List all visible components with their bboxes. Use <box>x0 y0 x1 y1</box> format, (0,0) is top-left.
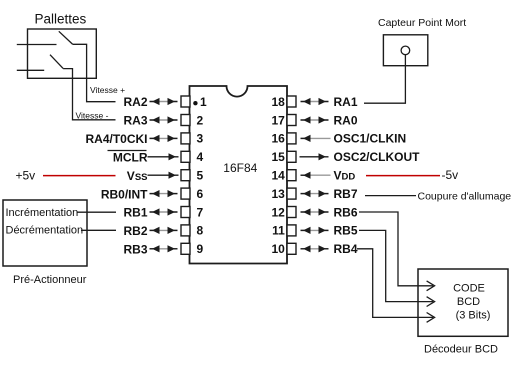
pin number 4 <box>197 150 204 164</box>
svg-text:11: 11 <box>272 224 285 238</box>
pin label RB4 (pin 10) <box>334 242 358 256</box>
wire VDD to -5v (red) <box>366 175 440 177</box>
net label Vitesse - <box>76 111 109 121</box>
pin number 15 <box>271 150 285 164</box>
switch box SW (Pallettes) <box>28 29 97 78</box>
decoder input arrow 1 <box>427 281 435 291</box>
svg-text:13: 13 <box>271 187 285 201</box>
pin box pin 5 (left) <box>181 170 190 181</box>
svg-text:3: 3 <box>197 132 204 146</box>
pin label Vss (pin 5) <box>127 169 148 183</box>
pin box pin 8 (left) <box>181 225 190 236</box>
pin box pin 18 (right) <box>287 96 296 107</box>
pin label OSC1/CLKIN (pin 16) <box>334 132 407 146</box>
arrow at pin 17 (RA0) <box>301 116 329 123</box>
svg-text:18: 18 <box>271 95 285 109</box>
label Pre-Actionneur <box>13 274 87 286</box>
svg-text:OSC1/CLKIN: OSC1/CLKIN <box>334 132 407 146</box>
svg-text:Vitesse -: Vitesse - <box>76 111 109 121</box>
decoder input arrow 2 <box>427 297 435 307</box>
pin number 18 <box>271 95 285 109</box>
switch SW2 contact (Vitesse -) <box>17 69 44 71</box>
svg-text:14: 14 <box>271 169 285 183</box>
arrow at pin 15 (OSC2/CLKOUT) <box>300 153 329 160</box>
label Decodeur BCD <box>424 344 498 356</box>
label Decrementation <box>6 224 84 236</box>
pin label RB3 (pin 9) <box>123 243 147 257</box>
svg-text:16: 16 <box>271 132 285 146</box>
svg-text:RB5: RB5 <box>334 224 358 238</box>
pin number 12 <box>271 205 285 219</box>
pin number 13 <box>271 187 285 201</box>
pin label RB7 (pin 13) <box>334 187 358 201</box>
pin label RB0/INT (pin 6) <box>101 187 148 201</box>
svg-text:RB2: RB2 <box>123 224 147 238</box>
svg-text:Coupure d'allumage: Coupure d'allumage <box>418 190 512 202</box>
label Capteur Point Mort <box>378 17 466 29</box>
wire Decrementation to RB2 <box>81 229 116 231</box>
svg-text:-5v: -5v <box>442 168 459 182</box>
svg-text:RB1: RB1 <box>123 206 147 220</box>
power label -5v <box>442 168 459 182</box>
svg-text:VSS: VSS <box>127 169 148 183</box>
pin label RB2 (pin 8) <box>123 224 147 238</box>
arrow at pin 5 (Vss) <box>148 172 179 179</box>
pin number 17 <box>271 113 285 127</box>
svg-text:2: 2 <box>197 113 204 127</box>
pin box pin 1 (left) <box>181 96 190 107</box>
pin box pin 3 (left) <box>181 133 190 144</box>
arrow at pin 2 (RA3) <box>150 116 178 123</box>
arrow at pin 7 (RB1) <box>150 208 178 215</box>
pin box pin 9 (left) <box>181 243 190 254</box>
net label Vitesse + <box>90 85 125 95</box>
svg-text:17: 17 <box>271 113 285 127</box>
arrow at pin 14 (VDD) <box>301 172 331 179</box>
switch SW1 contact (Vitesse +) <box>17 44 57 46</box>
pin number 1 <box>200 95 207 109</box>
svg-text:4: 4 <box>197 150 204 164</box>
svg-text:RB4: RB4 <box>334 242 358 256</box>
pin label RA1 (pin 18) <box>334 95 358 109</box>
label Coupure d'allumage <box>418 190 512 202</box>
IC U1 value label 16F84 <box>223 161 257 175</box>
svg-text:CODE: CODE <box>453 283 485 295</box>
pin label OSC2/CLKOUT (pin 15) <box>334 150 421 164</box>
pin box pin 17 (right) <box>287 115 296 126</box>
svg-text:RB0/INT: RB0/INT <box>101 187 148 201</box>
pin label RB5 (pin 11) <box>334 224 358 238</box>
pin number 7 <box>197 205 204 219</box>
switch SW2 lever <box>50 55 63 69</box>
svg-text:5: 5 <box>197 169 204 183</box>
pin box pin 14 (right) <box>287 170 296 181</box>
decoder text BCD <box>457 296 480 308</box>
sensor box Capteur Point Mort <box>383 35 427 66</box>
wire Incrementation to RB1 <box>78 211 117 213</box>
arrow at pin 12 (RB6) <box>301 208 329 215</box>
IC U1 16F84 body with pin-1 notch <box>190 86 288 264</box>
arrow at pin 4 (MCLR) <box>148 153 179 160</box>
pin label RA2 (pin 1) <box>123 95 147 109</box>
svg-text:8: 8 <box>197 224 204 238</box>
arrow at pin 1 (RA2) <box>150 98 178 105</box>
wire RB7 to Coupure d'allumage <box>365 195 416 197</box>
switch SW1 lever <box>59 31 73 44</box>
pin box pin 10 (right) <box>287 243 296 254</box>
svg-text:Pré-Actionneur: Pré-Actionneur <box>13 274 87 286</box>
pin label RA3 (pin 2) <box>123 114 147 128</box>
arrow at pin 8 (RB2) <box>150 227 178 234</box>
pin number 10 <box>271 242 285 256</box>
svg-text:RB3: RB3 <box>123 243 147 257</box>
pin box pin 12 (right) <box>287 207 296 218</box>
decoder text (3 Bits) <box>456 309 491 321</box>
svg-text:RA1: RA1 <box>334 95 358 109</box>
pin number 8 <box>197 224 204 238</box>
label Incrementation <box>6 207 79 219</box>
pin number 11 <box>272 224 285 238</box>
svg-text:Pallettes: Pallettes <box>35 12 87 27</box>
svg-text:RA0: RA0 <box>334 113 358 127</box>
arrow at pin 18 (RA1) <box>301 98 329 105</box>
wire RB4 to decoder input 3 <box>357 249 433 318</box>
pin box pin 11 (right) <box>287 225 296 236</box>
pin label RA0 (pin 17) <box>334 113 358 127</box>
pin number 5 <box>197 169 204 183</box>
decoder input arrow 3 <box>427 313 435 323</box>
pin 1 orientation dot <box>193 101 197 105</box>
pin box pin 16 (right) <box>287 133 296 144</box>
svg-text:MCLR: MCLR <box>113 151 148 165</box>
svg-text:15: 15 <box>271 150 285 164</box>
arrow at pin 16 (OSC1/CLKIN) <box>301 135 331 142</box>
svg-text:16F84: 16F84 <box>223 161 257 175</box>
pin label RB1 (pin 7) <box>123 206 147 220</box>
svg-text:VDD: VDD <box>334 169 356 183</box>
svg-text:OSC2/CLKOUT: OSC2/CLKOUT <box>334 150 421 164</box>
arrow at pin 13 (RB7) <box>301 190 329 197</box>
svg-text:Décrémentation: Décrémentation <box>6 224 84 236</box>
arrow at pin 10 (RB4) <box>301 245 329 252</box>
pin box pin 7 (left) <box>181 207 190 218</box>
pin box pin 6 (left) <box>181 188 190 199</box>
pin number 14 <box>271 169 285 183</box>
svg-text:RA2: RA2 <box>123 95 147 109</box>
svg-text:Incrémentation: Incrémentation <box>6 207 79 219</box>
svg-text:9: 9 <box>197 242 204 256</box>
wire RB6 to decoder input 1 <box>359 212 433 286</box>
svg-text:Vitesse +: Vitesse + <box>90 85 125 95</box>
pin label RB6 (pin 12) <box>334 205 358 219</box>
pin number 9 <box>197 242 204 256</box>
svg-text:RA3: RA3 <box>123 114 147 128</box>
pin box pin 13 (right) <box>287 188 296 199</box>
svg-text:10: 10 <box>271 242 285 256</box>
box Pre-Actionneur <box>3 200 87 266</box>
arrow at pin 6 (RB0/INT) <box>150 190 178 197</box>
svg-text:Capteur Point Mort: Capteur Point Mort <box>378 17 466 29</box>
pin box pin 2 (left) <box>181 115 190 126</box>
pin label RA4/T0CKI (pin 3) <box>85 132 147 146</box>
wire SW1 to node Vitesse+ <box>73 44 116 101</box>
decoder text CODE <box>453 283 485 295</box>
label Pallettes <box>35 12 87 27</box>
arrow at pin 3 (RA4/T0CKI) <box>150 135 178 142</box>
pin number 6 <box>197 187 204 201</box>
box Decodeur BCD <box>418 269 508 336</box>
arrow at pin 11 (RB5) <box>301 227 329 234</box>
svg-text:BCD: BCD <box>457 296 480 308</box>
power label +5v <box>16 169 36 183</box>
svg-text:(3 Bits): (3 Bits) <box>456 309 491 321</box>
wire +5v to Vss (red) <box>43 175 116 177</box>
wire sensor to RA1 <box>364 55 405 103</box>
pin box pin 4 (left) <box>181 151 190 162</box>
arrow at pin 9 (RB3) <box>150 245 178 252</box>
sensor contact circle <box>401 46 410 55</box>
pin number 3 <box>197 132 204 146</box>
pin number 16 <box>271 132 285 146</box>
pin label MCLR (pin 4) <box>108 151 148 165</box>
svg-text:+5v: +5v <box>16 169 36 183</box>
pin label VDD (pin 14) <box>334 169 356 183</box>
svg-text:RB7: RB7 <box>334 187 358 201</box>
svg-text:7: 7 <box>197 205 204 219</box>
svg-text:RA4/T0CKI: RA4/T0CKI <box>85 132 147 146</box>
svg-text:RB6: RB6 <box>334 205 358 219</box>
svg-text:Décodeur BCD: Décodeur BCD <box>424 344 498 356</box>
svg-text:1: 1 <box>200 95 207 109</box>
pin box pin 15 (right) <box>287 151 296 162</box>
wire SW2 to node Vitesse- <box>63 69 115 120</box>
pin number 2 <box>197 113 204 127</box>
svg-text:6: 6 <box>197 187 204 201</box>
wire RB5 to decoder input 2 <box>359 230 433 301</box>
svg-text:12: 12 <box>271 205 285 219</box>
